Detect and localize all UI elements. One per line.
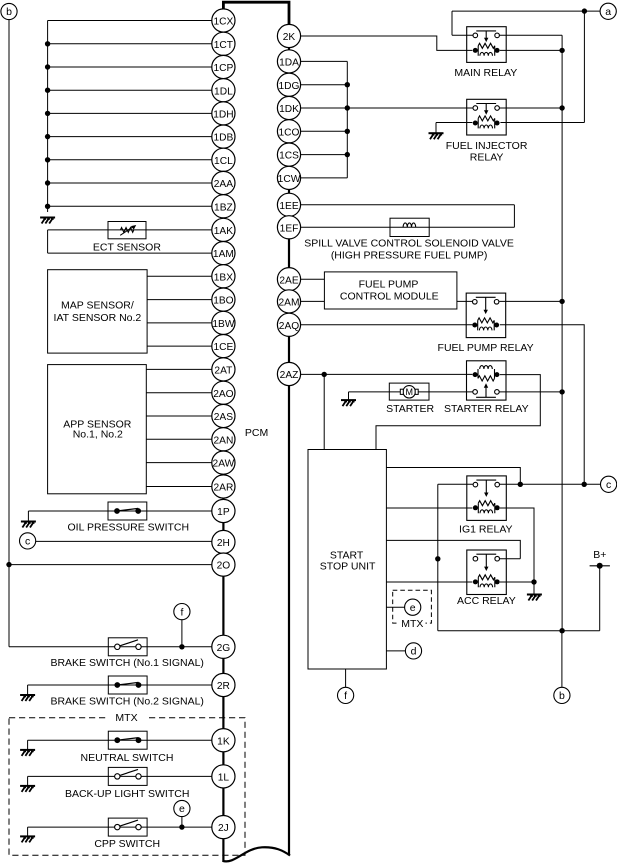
svg-text:c: c	[606, 479, 611, 491]
svg-text:2R: 2R	[217, 681, 230, 692]
svg-text:1L: 1L	[218, 773, 230, 784]
svg-text:2H: 2H	[217, 538, 230, 549]
svg-text:STARTER: STARTER	[386, 403, 434, 415]
svg-text:1AK: 1AK	[214, 226, 233, 237]
svg-text:PCM: PCM	[245, 427, 268, 439]
svg-text:c: c	[25, 536, 30, 548]
svg-text:1CS: 1CS	[279, 151, 299, 162]
svg-text:2AE: 2AE	[279, 275, 298, 286]
svg-text:2J: 2J	[218, 823, 229, 834]
svg-text:2G: 2G	[217, 643, 231, 654]
svg-text:e: e	[179, 803, 185, 815]
svg-text:1DK: 1DK	[279, 104, 299, 115]
svg-text:ACC RELAY: ACC RELAY	[457, 595, 516, 607]
svg-text:BACK-UP LIGHT SWITCH: BACK-UP LIGHT SWITCH	[65, 788, 189, 800]
svg-text:MTX: MTX	[401, 618, 423, 630]
svg-text:IAT SENSOR No.2: IAT SENSOR No.2	[54, 312, 142, 324]
svg-text:MAP SENSOR/: MAP SENSOR/	[61, 300, 134, 312]
svg-text:2AO: 2AO	[213, 389, 233, 400]
svg-text:1BO: 1BO	[213, 296, 233, 307]
svg-text:2K: 2K	[283, 32, 296, 43]
svg-text:2AA: 2AA	[214, 179, 233, 190]
svg-text:1AM: 1AM	[213, 249, 234, 260]
svg-text:2AQ: 2AQ	[279, 321, 299, 332]
svg-text:2AT: 2AT	[214, 366, 232, 377]
svg-text:MAIN RELAY: MAIN RELAY	[454, 67, 517, 79]
svg-text:NEUTRAL SWITCH: NEUTRAL SWITCH	[81, 752, 174, 764]
svg-text:1CW: 1CW	[278, 174, 301, 185]
svg-text:2AR: 2AR	[213, 483, 233, 494]
svg-text:2AW: 2AW	[213, 459, 235, 470]
svg-text:M: M	[406, 387, 414, 397]
svg-text:1EE: 1EE	[279, 201, 298, 212]
svg-text:1DB: 1DB	[213, 133, 233, 144]
svg-text:1BZ: 1BZ	[214, 202, 233, 213]
svg-text:f: f	[180, 606, 183, 618]
svg-text:FUEL PUMP: FUEL PUMP	[359, 278, 419, 290]
svg-text:STARTER RELAY: STARTER RELAY	[444, 403, 529, 415]
svg-text:1K: 1K	[217, 736, 230, 747]
svg-text:a: a	[605, 6, 611, 18]
svg-text:RELAY: RELAY	[470, 152, 504, 164]
svg-text:1EF: 1EF	[280, 223, 299, 234]
svg-text:1DG: 1DG	[279, 81, 300, 92]
svg-text:f: f	[344, 690, 347, 702]
svg-text:1CL: 1CL	[214, 156, 233, 167]
svg-text:1BX: 1BX	[214, 272, 233, 283]
svg-text:(HIGH PRESSURE FUEL PUMP): (HIGH PRESSURE FUEL PUMP)	[331, 250, 488, 262]
svg-text:SPILL VALVE CONTROL SOLENOID V: SPILL VALVE CONTROL SOLENOID VALVE	[304, 237, 514, 249]
svg-text:1BW: 1BW	[212, 319, 234, 330]
svg-text:FUEL PUMP RELAY: FUEL PUMP RELAY	[438, 342, 534, 354]
svg-text:2AZ: 2AZ	[280, 370, 299, 381]
svg-text:B+: B+	[593, 549, 606, 561]
svg-text:2O: 2O	[217, 561, 231, 572]
svg-text:b: b	[6, 6, 12, 18]
svg-text:1CE: 1CE	[213, 342, 233, 353]
svg-text:CPP SWITCH: CPP SWITCH	[94, 838, 160, 850]
svg-text:2AN: 2AN	[213, 435, 233, 446]
svg-text:IG1 RELAY: IG1 RELAY	[459, 523, 513, 535]
svg-text:CONTROL MODULE: CONTROL MODULE	[340, 290, 439, 302]
svg-text:1CT: 1CT	[214, 40, 233, 51]
svg-text:1P: 1P	[217, 507, 230, 518]
svg-text:1DA: 1DA	[279, 58, 299, 69]
svg-text:ECT SENSOR: ECT SENSOR	[93, 241, 161, 253]
svg-text:2AS: 2AS	[214, 412, 233, 423]
svg-text:1DH: 1DH	[213, 110, 233, 121]
svg-text:1DL: 1DL	[214, 86, 233, 97]
svg-text:b: b	[559, 690, 565, 702]
svg-text:FUEL INJECTOR: FUEL INJECTOR	[446, 140, 528, 152]
svg-text:BRAKE SWITCH (No.1 SIGNAL): BRAKE SWITCH (No.1 SIGNAL)	[50, 657, 203, 669]
svg-text:1CO: 1CO	[279, 127, 300, 138]
svg-text:d: d	[411, 646, 417, 658]
svg-text:MTX: MTX	[115, 712, 137, 724]
svg-text:1CP: 1CP	[213, 63, 233, 74]
svg-text:OIL PRESSURE SWITCH: OIL PRESSURE SWITCH	[68, 521, 190, 533]
svg-text:e: e	[410, 602, 416, 614]
svg-text:2AM: 2AM	[279, 298, 300, 309]
svg-text:1CX: 1CX	[213, 17, 233, 28]
svg-text:No.1, No.2: No.1, No.2	[73, 429, 123, 441]
svg-text:BRAKE SWITCH (No.2 SIGNAL): BRAKE SWITCH (No.2 SIGNAL)	[50, 695, 203, 707]
svg-text:STOP UNIT: STOP UNIT	[320, 561, 376, 573]
